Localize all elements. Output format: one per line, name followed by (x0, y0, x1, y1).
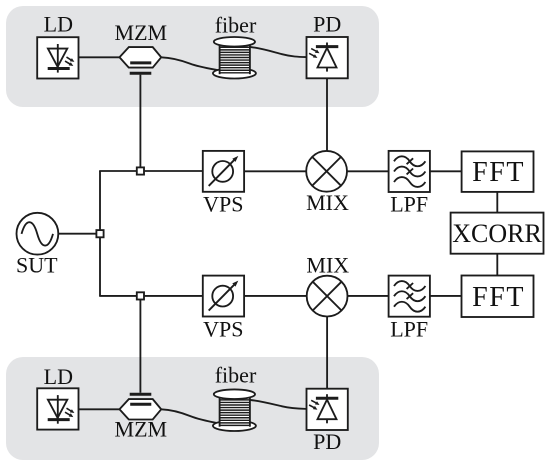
svg-text:LPF: LPF (390, 316, 428, 341)
source SUT (17, 213, 59, 255)
wire MZM to fiber (bottom) (161, 409, 219, 423)
wire top branch (99, 170, 203, 172)
wire bottom branch (99, 295, 203, 297)
modulator MZM (top) (120, 47, 162, 73)
svg-text:MIX: MIX (306, 190, 349, 215)
wire MIX to LPF (top) (347, 170, 389, 172)
modulator MZM (bottom) (120, 394, 162, 419)
bottom channel background (6, 357, 379, 460)
mixer MIX (top) (306, 151, 347, 192)
node splitter junction (96, 230, 103, 237)
filter LPF (bottom) (389, 276, 430, 317)
wire VPS to MIX (top) (244, 170, 306, 172)
wire FFT to XCORR (top) (496, 192, 498, 213)
wire fiber to PD (top) (250, 47, 307, 57)
laser diode LD (top) (37, 37, 78, 78)
wire MIX to LPF (bottom) (348, 295, 389, 297)
svg-text:FFT: FFT (472, 282, 525, 313)
block FFT (top) (462, 151, 534, 192)
phase shifter VPS (bottom) (203, 276, 244, 317)
block XCORR (451, 213, 544, 254)
wire splitter bus (99, 171, 101, 296)
svg-text:LD: LD (44, 12, 73, 37)
phase shifter VPS (top) (203, 151, 244, 192)
svg-text:LPF: LPF (390, 192, 428, 217)
svg-text:XCORR: XCORR (452, 219, 542, 248)
mixer MIX (bottom) (307, 276, 348, 317)
node bottom branch junction (137, 292, 144, 299)
fiber spool (top) (213, 37, 256, 79)
wire MIX to PD (bottom) (326, 317, 328, 389)
filter LPF (top) (389, 151, 430, 192)
wire LD to MZM (bottom) (79, 408, 120, 410)
wire MZM RF input (top) (139, 75, 141, 171)
wire LPF to FFT (bottom) (430, 295, 462, 297)
laser diode LD (bottom) (37, 388, 78, 429)
wire LD to MZM (top) (79, 56, 120, 58)
svg-text:MZM: MZM (115, 417, 168, 442)
svg-text:VPS: VPS (203, 316, 243, 341)
svg-text:VPS: VPS (203, 192, 243, 217)
svg-text:PD: PD (313, 429, 341, 454)
wire VPS to MIX (bottom) (244, 295, 307, 297)
svg-text:fiber: fiber (215, 362, 257, 387)
svg-text:SUT: SUT (16, 253, 58, 278)
svg-text:LD: LD (44, 364, 73, 389)
wire MZM RF input (bottom) (139, 296, 141, 393)
wire LPF to FFT (top) (430, 170, 462, 172)
top channel background (6, 6, 379, 107)
wire SUT to splitter (58, 233, 96, 235)
wire fiber to PD (bottom) (250, 400, 307, 409)
wire PD to MIX (top) (326, 79, 328, 152)
node top branch junction (137, 167, 144, 174)
wire XCORR to FFT (bottom) (496, 254, 498, 276)
photodiode PD (bottom) (307, 389, 348, 430)
svg-text:MZM: MZM (115, 20, 168, 45)
fiber spool (bottom) (213, 389, 256, 431)
wire MZM to fiber (top) (161, 57, 219, 70)
svg-text:PD: PD (313, 12, 341, 37)
svg-text:MIX: MIX (306, 252, 349, 277)
svg-text:FFT: FFT (472, 157, 525, 188)
block FFT (bottom) (462, 276, 534, 318)
svg-text:fiber: fiber (215, 12, 257, 37)
photodiode PD (top) (307, 37, 348, 78)
